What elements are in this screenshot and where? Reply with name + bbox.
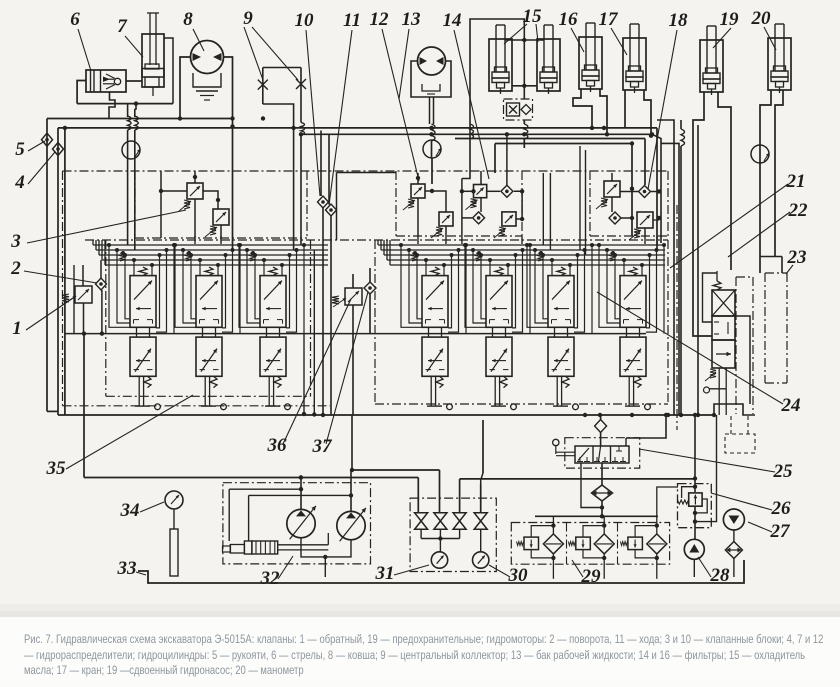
hydraulic cylinder 15b [537, 25, 560, 94]
relief valve 26 box [678, 413, 712, 528]
svg-text:32: 32 [260, 568, 281, 589]
trunk vertical A [657, 120, 674, 415]
filter diamond 27 drain [733, 530, 735, 542]
junction [230, 116, 234, 120]
wire cyl20 right lead [775, 90, 783, 257]
svg-text:8: 8 [183, 9, 193, 30]
node 2 diamond [96, 260, 107, 334]
junction dots on buses [178, 116, 654, 136]
right group supply bundle [378, 240, 665, 265]
collector joint left [122, 141, 140, 159]
oil cooler 15 block [504, 99, 533, 120]
svg-text:1: 1 [12, 318, 22, 339]
wire tank13 down [430, 97, 434, 124]
wire 26 down to pump 28 [693, 415, 717, 540]
shutoff valve 30 at 459.6 [453, 513, 466, 530]
wire cooler down [523, 120, 525, 124]
svg-text:21: 21 [786, 171, 806, 192]
filter under 25 [592, 485, 613, 501]
svg-text:7: 7 [117, 16, 128, 37]
callout numbers left column [10, 139, 25, 339]
spool valve right-3 [548, 267, 574, 406]
drain port [447, 404, 453, 410]
pressure gauge 30 [473, 552, 489, 568]
spool valve left-2 [196, 267, 222, 406]
block 3 wiring [159, 171, 221, 238]
junction [649, 134, 653, 138]
svg-text:31: 31 [375, 563, 395, 584]
wire comp6 bottom jog [109, 92, 115, 119]
relief valve in block 12 upper [466, 185, 487, 210]
hydraulic cylinder 15a [489, 25, 512, 94]
block 10 wiring [418, 189, 446, 236]
pressure gauge 31 [431, 552, 447, 568]
valve stand piping [421, 529, 481, 552]
svg-text:24: 24 [781, 395, 801, 416]
relief valve right block lower [629, 212, 653, 240]
collector dash-dot vertical [676, 205, 678, 430]
svg-text:17: 17 [599, 9, 620, 30]
wire motor8 right lead [224, 57, 233, 250]
valve stand 30 dash-dot box [410, 498, 496, 571]
svg-text:14: 14 [443, 10, 462, 31]
spool channels [107, 243, 176, 334]
pilot valve 25 dash-dot box [565, 438, 640, 468]
wire cyl17 right lead [644, 90, 651, 136]
wire filter 27 down [733, 559, 735, 578]
valve 22 right line [735, 316, 750, 404]
wire cyl16 right lead [600, 89, 607, 134]
drain port [511, 404, 517, 410]
trunk stub 74 [73, 265, 75, 334]
wire cyl19 left lead [693, 92, 712, 336]
callout numbers top row [70, 6, 771, 37]
hose crossing under cooler [524, 124, 528, 139]
makeup pump 27 [723, 509, 744, 530]
bus line A [47, 119, 233, 412]
hydraulic cylinder 19 [700, 26, 723, 95]
filter diamond under 25 [581, 463, 602, 508]
drain port [155, 404, 161, 410]
wire motor8 left lead [180, 57, 191, 119]
filter stand 29 dash-dot box [511, 523, 669, 565]
tank 23 dash-dot box [765, 273, 787, 383]
svg-text:12: 12 [370, 9, 390, 30]
svg-text:19: 19 [720, 9, 740, 30]
hydraulic motor 8 [191, 41, 224, 101]
svg-text:37: 37 [312, 436, 334, 457]
svg-text:13: 13 [402, 9, 421, 30]
check valve 5 [42, 133, 53, 146]
node valve 11 pointer diamond [326, 204, 337, 216]
collector 24 dash-dot column [736, 277, 753, 414]
hand pump [223, 533, 352, 577]
bus line B [58, 128, 657, 415]
gauge 34 [165, 491, 183, 576]
check valve 37 diamond [364, 268, 376, 334]
block 12 wiring [460, 132, 525, 236]
pump unit 32 dash-dot box [223, 483, 371, 564]
filter unit feed and drain [552, 516, 554, 579]
brake valve 22 [704, 271, 736, 415]
svg-text:36: 36 [267, 435, 288, 456]
shutoff valve 30 at 440.4 [434, 513, 447, 530]
channel drains to return [302, 250, 325, 417]
svg-text:10: 10 [295, 10, 315, 31]
hose crossing right [681, 120, 685, 415]
check diamond above 25 [595, 413, 669, 446]
filter unit 29-1 relief [517, 523, 556, 560]
pilot line 470 [352, 415, 481, 513]
svg-text:6: 6 [70, 9, 80, 30]
svg-text:34: 34 [120, 500, 140, 521]
block 3 internals [194, 171, 196, 183]
spool valve right-4 [620, 267, 646, 406]
hose crossing left pair [128, 103, 139, 250]
left group supply bundle [93, 240, 328, 265]
makeup pump 28 [684, 539, 704, 577]
wire 13 to collector gauge [431, 141, 433, 158]
wire cooler to right group [523, 139, 525, 148]
svg-text:33: 33 [117, 558, 137, 579]
svg-text:22: 22 [788, 200, 809, 221]
spool channels [399, 243, 468, 334]
svg-text:2: 2 [10, 258, 21, 279]
block exit stubs [195, 236, 657, 244]
center trunk lines [321, 131, 331, 416]
drain port [573, 404, 579, 410]
staircase to tank 23 [760, 257, 782, 274]
spool valve right-1 [422, 267, 448, 406]
node valve 10 pointer diamond [318, 196, 329, 208]
collector joint 9 middle [423, 140, 441, 158]
filter unit 29-2 diamond [594, 534, 614, 554]
relief valve 26 [689, 493, 702, 506]
relief valve 12 in block 10 [403, 184, 425, 210]
suction line [84, 420, 695, 484]
dashed box near 24 [725, 416, 755, 453]
valve blocks 10 and 12 dash-dot box [396, 171, 522, 236]
wire filter to stand 29 [535, 487, 678, 519]
svg-text:11: 11 [343, 10, 361, 31]
wire cyl17 left lead [624, 90, 626, 128]
cylinder 7 vertical [142, 13, 173, 104]
filter unit 29-3 diamond [647, 534, 667, 554]
collector joint right [751, 145, 769, 163]
relief valve in block 3 lower [205, 209, 229, 237]
svg-text:23: 23 [787, 247, 807, 268]
check valve 1 [62, 265, 92, 334]
tank 13 with motor [411, 47, 451, 97]
pilot check valve 36 [332, 274, 362, 415]
svg-text:9: 9 [243, 8, 253, 29]
wire between cylinders 15 piston side [512, 84, 537, 99]
filter unit 29-3 relief [620, 523, 659, 560]
spool channels [463, 243, 532, 334]
drain port [221, 404, 227, 410]
filter unit feed and drain [656, 516, 658, 579]
wire collector to block 10 [431, 158, 433, 184]
hydraulic cylinder 16 [579, 23, 602, 92]
tank return boundary 33 [138, 560, 744, 583]
svg-text:25: 25 [773, 461, 794, 482]
svg-text:16: 16 [559, 9, 579, 30]
filter unit 29-2 relief [568, 523, 606, 560]
shutoff valve 30 at 480.7 [474, 513, 487, 530]
svg-text:18: 18 [669, 10, 689, 31]
filter stand dividers [567, 523, 618, 565]
pilot valve 25 body [553, 439, 629, 463]
spool valve left-3 [260, 267, 286, 406]
pump unit inner piping [229, 468, 354, 541]
spool channels [525, 243, 594, 334]
relief valve in block 12 lower [494, 212, 516, 238]
variable pump 32b [337, 508, 366, 541]
feed verticals into right bundle [543, 146, 585, 255]
svg-text:27: 27 [770, 521, 792, 542]
svg-text:3: 3 [10, 231, 21, 252]
trunk vertical B [697, 125, 699, 415]
pilot valve 6 [86, 70, 126, 92]
callout numbers right and bottom [46, 171, 809, 589]
spool channels [597, 243, 666, 334]
drain port circles left group [0, 0, 1, 1]
return gallery line [65, 333, 646, 335]
bus line C [63, 126, 679, 415]
bus line D [455, 139, 645, 186]
block 10 internals feed [416, 173, 420, 184]
block housing solid edge [337, 173, 397, 241]
wire lower-left manifold [74, 265, 104, 478]
main return line [47, 404, 755, 417]
drain port [645, 404, 651, 410]
wire loop over cylinders 15 [462, 19, 524, 179]
relief valve in block 10 lower [431, 212, 453, 238]
filter unit 29-1 diamond [543, 534, 563, 554]
left group dash-dot enclosure [63, 171, 669, 406]
wire comp6 left lead [77, 81, 86, 104]
spool channels [173, 243, 242, 334]
relief valve in block 3 upper [179, 183, 203, 211]
wire cyl19 right lead to valve 22 [718, 92, 731, 270]
wire cyl16 left lead [573, 89, 592, 128]
wire under comps 6-7 [77, 101, 173, 105]
bus line E [495, 141, 634, 236]
svg-text:4: 4 [14, 172, 25, 193]
relief valve right block upper [596, 181, 620, 209]
filter under 27 [725, 542, 742, 559]
central collector 9 crossings [258, 68, 306, 251]
variable pump 32a [287, 506, 316, 539]
filter unit feed and drain [603, 516, 605, 579]
hose crossing under 13 [432, 124, 436, 141]
wire between cylinders 15 rod side [505, 38, 544, 86]
svg-text:35: 35 [46, 458, 67, 479]
hydraulic cylinder 20 [768, 24, 791, 93]
valve 22 pilot loop [703, 273, 718, 322]
wire comp6 to comp7 [126, 80, 142, 82]
svg-text:26: 26 [771, 498, 792, 519]
spool channels [237, 243, 306, 334]
check valve 4 [53, 143, 64, 156]
right block wiring [609, 173, 661, 236]
svg-text:15: 15 [523, 6, 543, 27]
spool valve left-1 [130, 267, 156, 406]
leader lines [24, 24, 793, 579]
svg-text:20: 20 [751, 8, 772, 29]
valve block 3 dash-dot box [135, 171, 307, 238]
drain circles right group row [0, 0, 1, 1]
right valve block dash-dot box [590, 171, 668, 236]
shutoff valve 30 at 421.1 [415, 513, 428, 530]
svg-text:5: 5 [15, 139, 25, 160]
wire cyl20 left lead [760, 90, 771, 273]
right group dash-dot enclosure [375, 240, 668, 404]
hydraulic cylinder 17 [623, 24, 646, 93]
drain port [285, 404, 291, 410]
hose crossing at 470 [470, 124, 474, 139]
spool valve right-2 [486, 267, 512, 406]
